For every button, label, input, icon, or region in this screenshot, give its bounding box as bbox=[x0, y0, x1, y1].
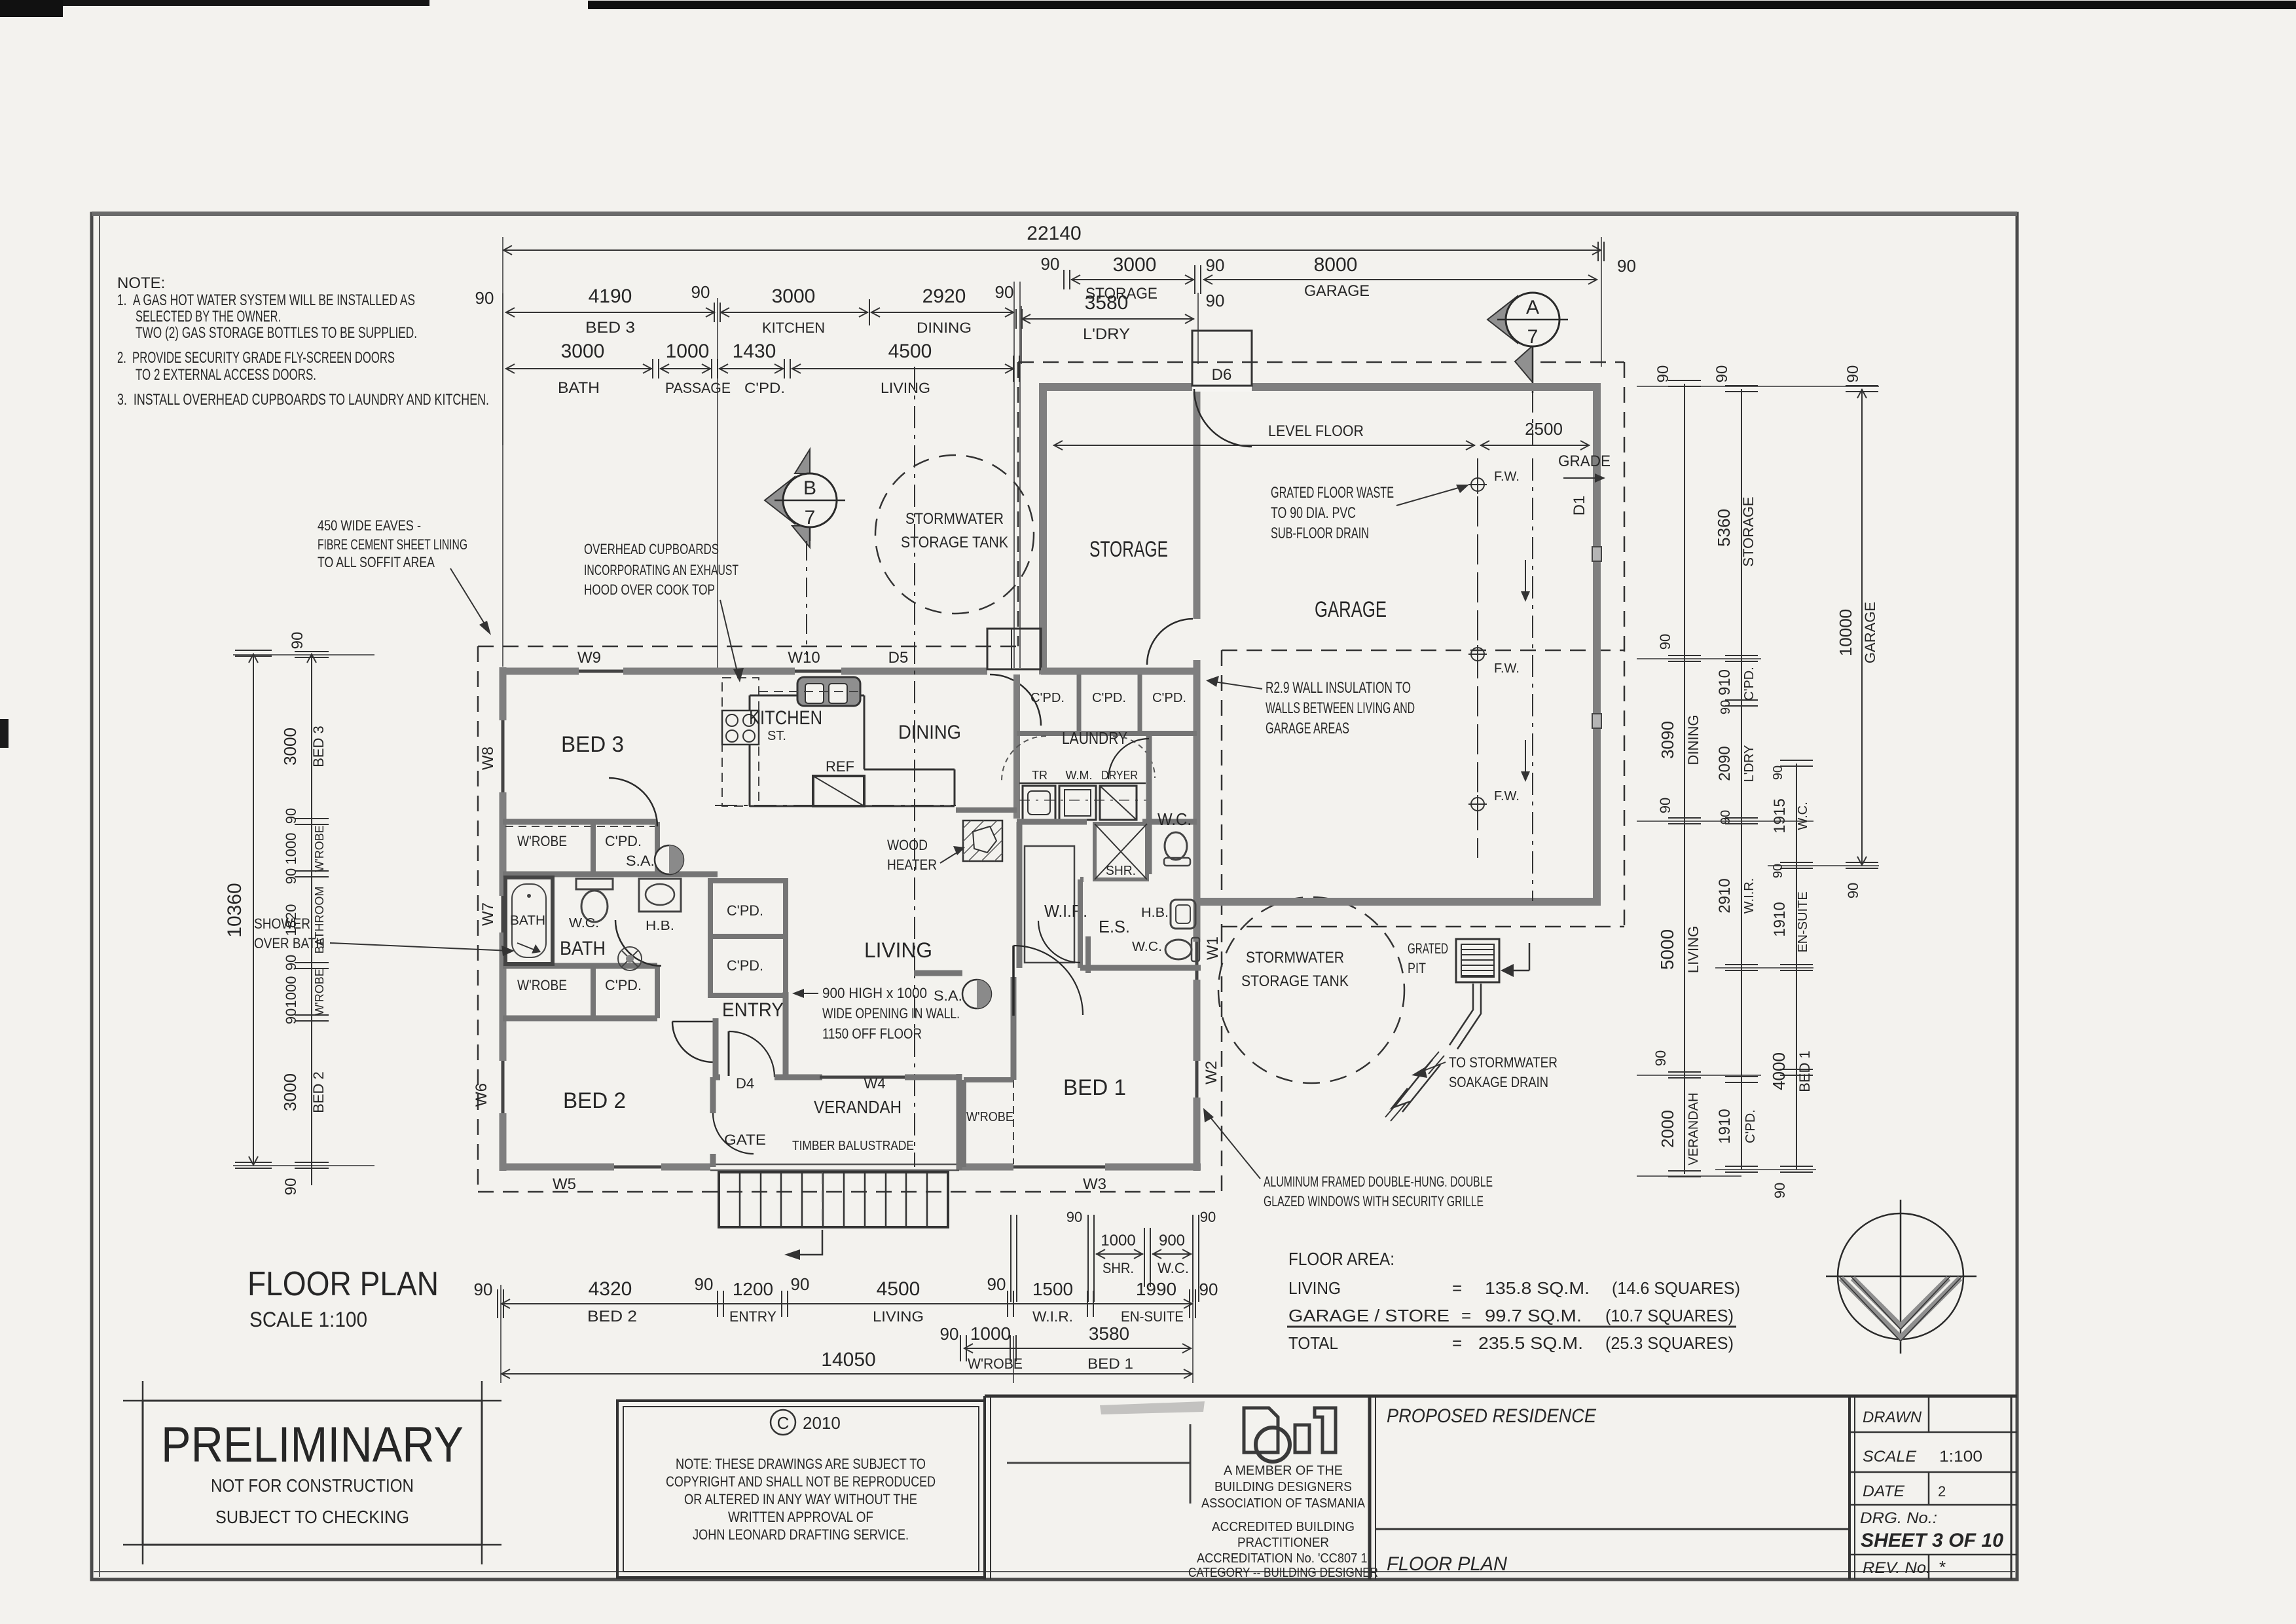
svg-text:C'PD.: C'PD. bbox=[605, 833, 642, 849]
svg-text:C'PD.: C'PD. bbox=[1742, 667, 1757, 701]
cpd column box top cell bbox=[710, 881, 786, 936]
left ext line top bbox=[233, 654, 374, 655]
svg-text:WALLS BETWEEN LIVING AND: WALLS BETWEEN LIVING AND bbox=[1266, 699, 1415, 717]
witness storage right tick bbox=[1197, 293, 1199, 364]
living bottom wall seg2 bbox=[661, 1164, 710, 1171]
dim 3000 storage line bbox=[1071, 279, 1194, 280]
bath tub bbox=[505, 877, 553, 964]
wall heater ledge bbox=[956, 807, 1017, 813]
window W8 bbox=[501, 720, 505, 792]
laundry cpd divider 2 bbox=[1138, 674, 1142, 733]
svg-text:1500: 1500 bbox=[1032, 1279, 1073, 1299]
svg-text:1915: 1915 bbox=[1771, 798, 1789, 833]
L2 tick 1006 bbox=[1725, 655, 1758, 656]
svg-text:135.8 SQ.M.: 135.8 SQ.M. bbox=[1485, 1278, 1590, 1298]
grated pit box bbox=[1456, 939, 1499, 982]
L2 tick 1254 bbox=[1725, 817, 1758, 819]
dim cpd line bbox=[719, 368, 784, 369]
svg-text:900: 900 bbox=[1159, 1232, 1185, 1249]
scan artifact top strip right segment bbox=[588, 1, 2296, 9]
svg-text:W.C.: W.C. bbox=[1157, 809, 1192, 829]
title block left border inner bbox=[1375, 1396, 1376, 1579]
bottom row1 line bbox=[501, 1303, 1193, 1304]
dim passage line bbox=[660, 368, 711, 369]
R2.9 leader arrow bbox=[1210, 681, 1262, 689]
dim WC mini line bbox=[1152, 1253, 1192, 1255]
svg-text:EN-SUITE: EN-SUITE bbox=[1796, 891, 1810, 952]
svg-text:C'PD.: C'PD. bbox=[727, 957, 763, 974]
svg-text:90: 90 bbox=[1652, 1050, 1669, 1066]
dim kitchen line bbox=[720, 312, 868, 313]
svg-text:1820: 1820 bbox=[283, 904, 299, 936]
svg-text:4320: 4320 bbox=[589, 1278, 632, 1300]
svg-text:HOOD OVER COOK TOP: HOOD OVER COOK TOP bbox=[584, 581, 715, 598]
svg-text:GARAGE: GARAGE bbox=[1862, 602, 1878, 663]
north point circle bbox=[1838, 1213, 1963, 1339]
wall verandah north seg3 bbox=[905, 1075, 959, 1080]
svg-text:SELECTED BY THE OWNER.: SELECTED BY THE OWNER. bbox=[136, 308, 281, 325]
dim living line bbox=[792, 368, 1014, 369]
svg-text:1000: 1000 bbox=[283, 833, 299, 865]
svg-text:PROPOSED RESIDENCE: PROPOSED RESIDENCE bbox=[1387, 1405, 1597, 1427]
dim bath line bbox=[505, 368, 652, 369]
WIR shelf rect bbox=[1025, 846, 1074, 963]
window W1 bbox=[1195, 942, 1199, 980]
svg-text:90: 90 bbox=[1845, 883, 1861, 898]
svg-text:W'ROBE: W'ROBE bbox=[313, 825, 326, 872]
dim 22140 right witness bbox=[1601, 237, 1602, 367]
dim cross tick 1328 bbox=[869, 299, 870, 325]
door D5 sidelight box bbox=[987, 629, 1041, 669]
svg-text:W'ROBE: W'ROBE bbox=[968, 1356, 1023, 1372]
laundry dashdot line bbox=[1019, 800, 1151, 801]
svg-text:ST.: ST. bbox=[767, 729, 786, 743]
svg-text:450 WIDE EAVES -: 450 WIDE EAVES - bbox=[318, 517, 421, 534]
L2 tick 1478 bbox=[1725, 964, 1758, 965]
FW symbol 1 bbox=[1471, 478, 1484, 491]
svg-text:SHEET 3 OF 10: SHEET 3 OF 10 bbox=[1861, 1530, 2003, 1551]
section marker B/7 bbox=[765, 449, 845, 547]
L1 tick 1793 bbox=[1668, 1170, 1701, 1172]
living top wall seg4 bbox=[1041, 668, 1043, 675]
svg-text:4190: 4190 bbox=[589, 286, 632, 307]
dim 10360 outer end ticks top bbox=[235, 650, 272, 651]
svg-text:GARAGE AREAS: GARAGE AREAS bbox=[1266, 720, 1349, 737]
bed1 door wall stub bbox=[1085, 936, 1091, 973]
wall below laundry appliances right bbox=[1142, 819, 1197, 825]
svg-text:7: 7 bbox=[805, 507, 816, 528]
eave dashed living top bbox=[478, 646, 1018, 648]
svg-text:90: 90 bbox=[995, 282, 1014, 302]
L3 tick 1786 bbox=[1780, 1166, 1813, 1167]
svg-text:KITCHEN: KITCHEN bbox=[749, 707, 822, 729]
svg-text:2920: 2920 bbox=[922, 286, 966, 307]
svg-text:FLOOR PLAN: FLOOR PLAN bbox=[247, 1265, 439, 1303]
svg-text:R2.9 WALL INSULATION TO: R2.9 WALL INSULATION TO bbox=[1266, 679, 1411, 697]
svg-text:WRITTEN APPROVAL OF: WRITTEN APPROVAL OF bbox=[728, 1509, 873, 1525]
FW symbol 3 bbox=[1471, 798, 1484, 811]
svg-text:ACCREDITATION No. 'CC807 1': ACCREDITATION No. 'CC807 1' bbox=[1197, 1551, 1370, 1566]
soakage arrow head bbox=[1392, 1088, 1410, 1108]
soakage note leader bbox=[1415, 1062, 1446, 1074]
living left wall seg2 bbox=[500, 792, 507, 896]
section marker A/7 bbox=[1487, 293, 1568, 393]
title row line 2 bbox=[1850, 1471, 2017, 1473]
svg-text:90: 90 bbox=[283, 955, 299, 970]
svg-text:W.I.R.: W.I.R. bbox=[1032, 1308, 1073, 1325]
svg-text:W.C.: W.C. bbox=[1796, 802, 1810, 830]
steps exit line bbox=[791, 1230, 822, 1255]
svg-text:90: 90 bbox=[791, 1274, 810, 1294]
right ext line y1793 bbox=[1637, 1175, 1741, 1177]
svg-text:STORAGE TANK: STORAGE TANK bbox=[901, 534, 1008, 551]
L2 tick 1649 bbox=[1725, 1076, 1758, 1077]
svg-text:LAUNDRY: LAUNDRY bbox=[1062, 728, 1127, 748]
wall entry-bed2 vertical bbox=[713, 1018, 719, 1077]
wall wrobe2 top is bathroom bottom - divider row2 bbox=[591, 966, 596, 1018]
svg-text:FIBRE CEMENT SHEET LINING: FIBRE CEMENT SHEET LINING bbox=[318, 536, 467, 553]
eave dashed garage top bbox=[1018, 361, 1624, 363]
title value divider rev bbox=[1928, 1555, 1930, 1579]
dim 3580 left witness bbox=[1021, 306, 1022, 364]
bottom ticks 1666 bbox=[1087, 1291, 1088, 1317]
svg-text:90: 90 bbox=[691, 282, 710, 302]
bottom ticks 1822 bbox=[1189, 1289, 1190, 1318]
svg-text:CATEGORY -- BUILDING DESIGNER: CATEGORY -- BUILDING DESIGNER bbox=[1188, 1566, 1378, 1580]
svg-text:90: 90 bbox=[475, 288, 494, 308]
laundry door arc right bbox=[1113, 736, 1155, 778]
storage left wall bbox=[1039, 383, 1047, 674]
dashdot living-dining boundary bbox=[715, 805, 956, 806]
svg-text:D1: D1 bbox=[1571, 496, 1588, 516]
svg-text:DRG. No.:: DRG. No.: bbox=[1860, 1509, 1937, 1527]
svg-text:1000: 1000 bbox=[1101, 1232, 1135, 1249]
svg-text:14050: 14050 bbox=[821, 1349, 875, 1371]
svg-text:ENTRY: ENTRY bbox=[722, 999, 784, 1021]
svg-text:C: C bbox=[777, 1413, 790, 1433]
svg-text:90: 90 bbox=[289, 632, 306, 650]
svg-text:DRYER: DRYER bbox=[1101, 769, 1138, 782]
svg-text:H.B.: H.B. bbox=[1141, 906, 1169, 920]
svg-text:910: 910 bbox=[1716, 669, 1734, 695]
svg-text:C'PD.: C'PD. bbox=[1743, 1109, 1758, 1143]
svg-text:S.A.: S.A. bbox=[626, 853, 655, 869]
living bottom wall seg1 bbox=[503, 1164, 614, 1171]
svg-text:W'ROBE: W'ROBE bbox=[313, 969, 326, 1015]
svg-text:REV. No.: REV. No. bbox=[1863, 1559, 1931, 1577]
smoke alarm SA1 bbox=[655, 845, 683, 874]
svg-text:PRACTITIONER: PRACTITIONER bbox=[1237, 1536, 1329, 1550]
living right wall seg4 bbox=[1194, 1098, 1201, 1171]
svg-text:3000: 3000 bbox=[280, 1073, 300, 1111]
wall bathroom top bbox=[503, 872, 718, 877]
soakage pipe from pit bbox=[1449, 984, 1473, 1045]
window W3 bbox=[1013, 1166, 1105, 1169]
wall verandah north seg2 bbox=[774, 1075, 822, 1080]
svg-text:PIT: PIT bbox=[1408, 960, 1426, 976]
verandah balustrade bbox=[710, 1164, 959, 1166]
title value divider drawn bbox=[1928, 1396, 1930, 1432]
svg-text:W.C.: W.C. bbox=[1157, 1260, 1189, 1276]
svg-text:90: 90 bbox=[1654, 365, 1672, 383]
svg-text:1430: 1430 bbox=[733, 341, 776, 362]
stormwater tank 2 dashed circle bbox=[1218, 897, 1404, 1083]
wall ES-BED1 south bbox=[1080, 877, 1084, 882]
verandah steps treads bbox=[740, 1172, 927, 1227]
svg-text:1. A GAS HOT WATER SYSTEM WIL: 1. A GAS HOT WATER SYSTEM WILL BE INSTAL… bbox=[117, 291, 415, 309]
svg-text:3580: 3580 bbox=[1085, 292, 1129, 314]
bath shower arrow bbox=[517, 943, 537, 951]
svg-text:F.W.: F.W. bbox=[1494, 789, 1520, 803]
living left wall seg3 bbox=[500, 932, 507, 1061]
dim 22140 line bbox=[503, 249, 1601, 251]
bottom ticks 1199 bbox=[781, 1291, 782, 1317]
svg-text:2090: 2090 bbox=[1716, 746, 1734, 781]
drain down arrow 1 bbox=[1525, 560, 1526, 599]
svg-text:W'ROBE: W'ROBE bbox=[517, 977, 567, 993]
svg-text:3000: 3000 bbox=[561, 341, 605, 362]
svg-text:4500: 4500 bbox=[877, 1278, 920, 1300]
svg-text:(14.6 SQUARES): (14.6 SQUARES) bbox=[1612, 1278, 1740, 1298]
storage-garage divider wall bbox=[1194, 387, 1201, 619]
svg-text:2500: 2500 bbox=[1525, 419, 1563, 439]
eave dashed garage right bbox=[1624, 362, 1626, 927]
svg-text:BED 3: BED 3 bbox=[310, 726, 327, 767]
svg-text:LIVING: LIVING bbox=[873, 1308, 924, 1325]
WC1 door arc bbox=[1108, 739, 1149, 779]
right ext line y590 bbox=[1637, 386, 1879, 387]
svg-text:1000: 1000 bbox=[666, 341, 710, 362]
svg-text:INCORPORATING AN EXHAUST: INCORPORATING AN EXHAUST bbox=[584, 562, 738, 578]
svg-text:C'PD.: C'PD. bbox=[1030, 691, 1065, 705]
L3 tick 1478 bbox=[1780, 964, 1813, 965]
svg-text:GATE: GATE bbox=[724, 1132, 766, 1148]
svg-text:W6: W6 bbox=[473, 1083, 490, 1107]
svg-text:W.I.R.: W.I.R. bbox=[1742, 878, 1757, 913]
svg-text:TO 2 EXTERNAL ACCESS DOORS.: TO 2 EXTERNAL ACCESS DOORS. bbox=[136, 366, 316, 384]
laundry top wall bbox=[1043, 668, 1197, 675]
sheet border frame bbox=[92, 213, 2017, 1579]
window W5 bbox=[614, 1166, 661, 1169]
wall living west below cpd bbox=[783, 992, 789, 1080]
svg-text:PASSAGE: PASSAGE bbox=[665, 380, 731, 396]
L2 tick 1074 bbox=[1725, 699, 1758, 701]
north point V outline b bbox=[1850, 1276, 1951, 1329]
wall verandah left lower bbox=[710, 1154, 716, 1167]
svg-text:OR ALTERED IN ANY WAY WITHOUT: OR ALTERED IN ANY WAY WITHOUT THE bbox=[684, 1491, 917, 1507]
garage door D6 opening gap bbox=[1192, 382, 1252, 392]
svg-text:LEVEL FLOOR: LEVEL FLOOR bbox=[1268, 422, 1364, 440]
svg-text:VERANDAH: VERANDAH bbox=[1686, 1092, 1701, 1165]
right ext line y1642 bbox=[1637, 1075, 1761, 1076]
svg-text:1000: 1000 bbox=[283, 976, 299, 1008]
wall passage left vertical bbox=[655, 822, 660, 874]
svg-text:REF: REF bbox=[826, 758, 854, 775]
title block right edge bbox=[2011, 1396, 2013, 1579]
dim right end ticks bbox=[1597, 242, 1599, 261]
toilet WC2 ensuite bbox=[1165, 940, 1192, 959]
svg-text:SCALE 1:100: SCALE 1:100 bbox=[249, 1308, 367, 1331]
living right wall seg3 bbox=[1194, 980, 1201, 1061]
door D4 swing arc bbox=[729, 1031, 774, 1077]
svg-text:LIVING: LIVING bbox=[881, 380, 930, 396]
svg-text:ASSOCIATION OF TASMANIA: ASSOCIATION OF TASMANIA bbox=[1201, 1496, 1366, 1511]
svg-text:90: 90 bbox=[1844, 365, 1862, 383]
left ext line bottom bbox=[233, 1165, 374, 1166]
eave dashed living bottom bbox=[478, 1191, 1222, 1193]
svg-text:L'DRY: L'DRY bbox=[1742, 745, 1757, 783]
left chain arrow top bbox=[307, 654, 316, 663]
bottom witness 1548 bbox=[1013, 1336, 1014, 1383]
bottom ticks 1544 bbox=[1007, 1291, 1008, 1317]
svg-text:90: 90 bbox=[1200, 1209, 1216, 1225]
svg-text:900 HIGH x 1000: 900 HIGH x 1000 bbox=[822, 985, 927, 1001]
svg-text:99.7 SQ.M.: 99.7 SQ.M. bbox=[1485, 1306, 1582, 1325]
living top wall seg1 bbox=[503, 668, 579, 675]
floor area underline bbox=[1287, 1326, 1736, 1328]
svg-text:90: 90 bbox=[283, 868, 299, 884]
svg-text:10000: 10000 bbox=[1836, 609, 1855, 656]
soakage pipe diagonal segment bbox=[1394, 1060, 1432, 1107]
bed1 north wall right bbox=[1136, 965, 1201, 971]
wall verandah left bbox=[710, 1077, 716, 1113]
svg-text:E.S.: E.S. bbox=[1099, 917, 1130, 936]
toilet WC1 bbox=[1165, 832, 1187, 860]
svg-text:BED 1: BED 1 bbox=[1087, 1356, 1133, 1372]
dim 8000 garage line bbox=[1203, 279, 1597, 280]
shower note leader bbox=[330, 943, 511, 951]
svg-text:3000: 3000 bbox=[280, 728, 300, 766]
svg-text:W.C.: W.C. bbox=[1132, 940, 1162, 954]
garage right wall window mark upper bbox=[1592, 547, 1601, 561]
svg-text:L'DRY: L'DRY bbox=[1083, 325, 1130, 343]
svg-text:SHOWER: SHOWER bbox=[254, 915, 310, 932]
svg-text:WIDE OPENING IN WALL.: WIDE OPENING IN WALL. bbox=[822, 1005, 960, 1022]
steps center dashline bbox=[822, 1172, 823, 1227]
svg-text:90: 90 bbox=[1657, 634, 1673, 650]
appliance WM box bbox=[1059, 786, 1096, 820]
logo box left border inner bbox=[990, 1396, 991, 1579]
svg-text:TOTAL: TOTAL bbox=[1288, 1333, 1338, 1353]
kitchen dashed overhead top bbox=[759, 691, 864, 692]
svg-text:TWO (2) GAS STORAGE BOTTLES TO: TWO (2) GAS STORAGE BOTTLES TO BE SUPPLI… bbox=[136, 324, 417, 342]
bottom row2 tick b bbox=[1010, 1335, 1011, 1361]
left chain tick t5 bbox=[295, 1014, 329, 1016]
copyright C symbol bbox=[771, 1410, 795, 1435]
north point horizontal axis bbox=[1826, 1276, 1977, 1278]
living left wall seg1 bbox=[500, 667, 507, 720]
svg-text:LIVING: LIVING bbox=[1288, 1278, 1341, 1298]
dim SHR mini line bbox=[1096, 1253, 1143, 1255]
svg-text:VERANDAH: VERANDAH bbox=[814, 1097, 902, 1117]
svg-text:TR: TR bbox=[1032, 769, 1048, 782]
svg-text:B: B bbox=[803, 477, 816, 499]
laundry cupboard row bottom wall bbox=[1017, 731, 1197, 736]
stormwater tank 1 dashed circle bbox=[875, 455, 1034, 614]
kitchen cooktop bbox=[722, 710, 759, 745]
SHR X diag1 bbox=[1095, 824, 1147, 879]
witness 768 rowB-C bbox=[502, 293, 503, 445]
north point V outline a bbox=[1838, 1276, 1963, 1341]
svg-text:90: 90 bbox=[1206, 255, 1225, 275]
copyright box outer bbox=[617, 1401, 985, 1578]
garage level floor dim line bbox=[1053, 445, 1475, 446]
svg-text:90: 90 bbox=[1206, 291, 1225, 310]
svg-text:SOAKAGE DRAIN: SOAKAGE DRAIN bbox=[1449, 1074, 1548, 1090]
svg-text:(25.3 SQUARES): (25.3 SQUARES) bbox=[1605, 1333, 1734, 1353]
svg-text:3000: 3000 bbox=[772, 286, 816, 307]
logo smudge horizontal line bbox=[1007, 1462, 1190, 1464]
witness 1558 long bbox=[1019, 282, 1021, 668]
dim 10360 outer end ticks bottom bbox=[235, 1162, 272, 1163]
svg-text:BATHROOM: BATHROOM bbox=[313, 887, 326, 954]
wall WIR left bbox=[1017, 822, 1023, 968]
svg-text:DRAWN: DRAWN bbox=[1863, 1409, 1922, 1426]
svg-text:GARAGE: GARAGE bbox=[1315, 597, 1387, 622]
living left wall seg4 bbox=[500, 1113, 507, 1171]
wall bathroom bottom bbox=[503, 963, 657, 969]
kitchen bench inner step bbox=[864, 769, 955, 771]
L1 tick 1254 bbox=[1668, 817, 1701, 819]
svg-text:BATH: BATH bbox=[558, 379, 600, 397]
dim dining line bbox=[871, 312, 1014, 313]
garage right wall window mark lower bbox=[1592, 714, 1601, 728]
storage door arc bbox=[1147, 619, 1193, 665]
bottom row2 tick a bbox=[960, 1335, 961, 1361]
wall ES left bbox=[1078, 879, 1083, 968]
bottom witness left bbox=[500, 1285, 501, 1383]
logo box left border bbox=[983, 1396, 986, 1579]
svg-text:3. INSTALL OVERHEAD CUPBOARDS: 3. INSTALL OVERHEAD CUPBOARDS TO LAUNDRY… bbox=[117, 391, 489, 409]
svg-text:W2: W2 bbox=[1203, 1061, 1220, 1084]
cpd column box mid cell bbox=[710, 936, 786, 995]
kitchen bench top inner bbox=[750, 695, 864, 697]
eave dashed living left bbox=[477, 646, 479, 1192]
north point V outer bbox=[1841, 1278, 1960, 1338]
dim 3580 ticks bbox=[1015, 309, 1017, 329]
smoke alarm SA2 bbox=[962, 980, 991, 1008]
svg-text:GRADE: GRADE bbox=[1558, 452, 1611, 470]
dim storage left ticks bbox=[1063, 270, 1065, 289]
svg-text:BATH: BATH bbox=[510, 913, 545, 928]
bath door arc bbox=[615, 920, 661, 966]
garage door D6 swing arc bbox=[1194, 389, 1252, 447]
L3 tick 1322 bbox=[1780, 862, 1813, 863]
sheet border inner bottom bbox=[94, 1571, 2015, 1572]
L4 tick bottom bbox=[1846, 862, 1878, 863]
overhead cupboards leader bbox=[720, 600, 738, 677]
window W10 bbox=[795, 670, 841, 673]
scan artifact left edge nub bbox=[0, 719, 9, 748]
preliminary box tick extension bottom bbox=[123, 1544, 501, 1546]
svg-text:1:100: 1:100 bbox=[1939, 1448, 1982, 1466]
svg-text:TO ALL SOFFIT AREA: TO ALL SOFFIT AREA bbox=[318, 554, 435, 570]
window W6 bbox=[501, 1061, 505, 1113]
eaves note leader bbox=[450, 568, 488, 630]
wall ES bottom bbox=[1080, 965, 1201, 971]
kitchen sink unit bbox=[797, 677, 860, 706]
title value divider scale bbox=[1928, 1472, 1930, 1505]
bottom row1 left ticks bbox=[497, 1289, 498, 1318]
svg-text:GARAGE: GARAGE bbox=[1304, 282, 1370, 300]
svg-text:TO 90 DIA. PVC: TO 90 DIA. PVC bbox=[1271, 504, 1356, 522]
preliminary box tick vertical left-low bbox=[142, 1525, 144, 1564]
laundry door arc left bbox=[1002, 736, 1046, 781]
garage floor waste drain line bbox=[1477, 458, 1478, 858]
L3 tick 1166 bbox=[1780, 760, 1813, 761]
svg-text:GLAZED WINDOWS WITH SECURITY G: GLAZED WINDOWS WITH SECURITY GRILLE bbox=[1264, 1193, 1484, 1209]
svg-text:STORMWATER: STORMWATER bbox=[1246, 949, 1344, 967]
